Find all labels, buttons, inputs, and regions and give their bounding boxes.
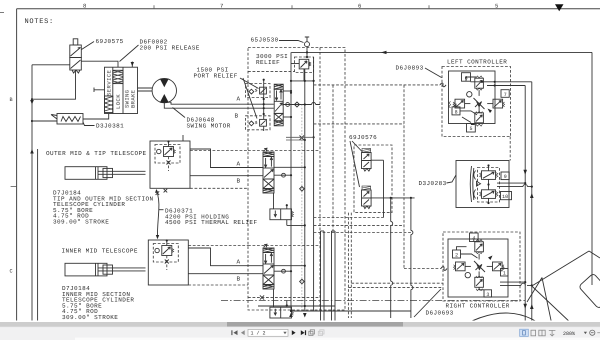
tele2 section dashed top tail <box>188 245 248 247</box>
tele2 spool top cap hatch <box>263 244 274 252</box>
swing spool X section <box>274 113 283 120</box>
bank section divider tele1/tele2 <box>248 245 320 247</box>
bus T vertical <box>304 69 306 311</box>
inter-stage arrow down <box>156 235 159 239</box>
RC lever ball <box>465 272 470 277</box>
pilot dash drop x404 <box>403 85 405 269</box>
toolbar top hairline <box>0 326 600 328</box>
node cross140-T <box>304 139 306 141</box>
brake shaft to motor <box>138 88 153 91</box>
grid tick 7-6 <box>291 5 293 9</box>
left controller inner box <box>449 71 496 124</box>
return riser pair a bridge <box>321 230 325 232</box>
node stub a <box>290 90 292 92</box>
valve D3J0381 spring <box>61 117 81 122</box>
horizontal scrollbar track <box>0 322 600 327</box>
left controller outer dashed box <box>442 67 511 137</box>
console line flow arrow <box>381 51 387 54</box>
grid tick 6-5 <box>428 5 430 9</box>
wire valve drain down <box>32 70 76 99</box>
bank bottom run a <box>258 305 335 307</box>
RC top reducer valve <box>475 240 484 260</box>
pilot dash lower run a <box>351 282 443 284</box>
bus left-ctrl B down <box>524 86 526 331</box>
node relief riser b <box>263 98 265 100</box>
top-left edge tick <box>0 12 4 14</box>
view mode selected <box>520 329 529 336</box>
pressure valve D3J0381 body <box>57 114 83 125</box>
outer-mid cylinder gland <box>103 168 113 177</box>
crossover V3 b <box>411 286 413 290</box>
crossover V2 b <box>391 281 393 285</box>
node out9 bus <box>524 182 526 184</box>
outer section dashed tail <box>190 187 248 189</box>
D3J0283 lever arcs <box>470 166 474 202</box>
node cross225 <box>304 224 306 226</box>
svg-text:69J0575: 69J0575 <box>96 38 124 45</box>
swing output orifice circle <box>286 103 290 107</box>
inner-mid cylinder piston <box>96 263 99 276</box>
wire twist right-ctrl <box>441 267 447 271</box>
node D3J0283 top <box>487 164 489 166</box>
svg-text:309.00" STROKE: 309.00" STROKE <box>53 219 109 226</box>
btn rotate disabled <box>318 330 324 336</box>
pilot dash pair drop a <box>347 213 349 318</box>
node relief riser c <box>263 113 265 115</box>
svg-text:A: A <box>237 96 241 103</box>
swing spool bottom cap hatch <box>274 121 283 126</box>
leader D3J0283 <box>447 175 457 183</box>
view mode scroll <box>549 330 556 336</box>
tele1 spool X section <box>263 179 274 189</box>
swing motor D6J0648 circle <box>152 78 176 102</box>
svg-text:2: 2 <box>455 253 458 259</box>
btn prev page <box>241 330 245 335</box>
wire valve out to brake <box>81 61 118 67</box>
wire 69J0576-1 out <box>371 159 383 161</box>
node relief riser a <box>263 79 265 81</box>
svg-text:4500 PSI THERMAL RELIEF: 4500 PSI THERMAL RELIEF <box>165 219 257 226</box>
svg-text:8: 8 <box>455 109 458 115</box>
shuttle B diamond <box>249 121 254 126</box>
pilot dash right-ctrl feed <box>404 268 441 270</box>
leader 69J0575 <box>82 42 95 50</box>
RC lever shade <box>488 256 493 261</box>
zoom dropdown <box>584 332 587 334</box>
node tele2 A-T <box>304 265 306 267</box>
port box 2 <box>453 250 461 259</box>
bank cross line y225 <box>287 224 305 226</box>
pilot dash feed upper <box>314 84 440 86</box>
inner section dashed tail <box>188 284 248 286</box>
RC output lower <box>500 284 532 286</box>
outer-mid holding pilot dash <box>168 157 170 172</box>
LC internal wire 5 <box>462 117 475 125</box>
node W1-D3J0381 <box>31 120 33 122</box>
right controller outer dashed box <box>443 232 520 301</box>
leader D3J0381 <box>83 122 95 126</box>
page field dropdown <box>283 332 286 334</box>
valve bank dashed edge 333 <box>332 85 334 233</box>
node swing output P <box>290 92 292 94</box>
D3J0283 valve 9 <box>480 171 498 180</box>
LC top reducer valve <box>475 76 484 96</box>
svg-text:D6J0893: D6J0893 <box>396 65 424 72</box>
view mode facing <box>539 330 545 336</box>
pilot dash ladder y225 <box>314 224 404 226</box>
crossover RC out <box>521 283 525 285</box>
port relief A dashed box <box>246 84 271 98</box>
outer-mid orifice X <box>167 161 171 165</box>
tele2 output orifice <box>282 269 286 273</box>
node tele1 A-T <box>304 166 306 168</box>
bus arrow down mid <box>523 170 527 175</box>
bus arrow up mid <box>530 193 534 198</box>
RC bottom reducer valve <box>475 271 484 290</box>
relief drain line <box>303 69 305 81</box>
solenoid valve 69J0575 body <box>70 45 82 70</box>
outer-mid cylinder piston <box>96 167 99 180</box>
node outer-mid block top <box>167 140 169 142</box>
LC lever shade <box>488 109 493 114</box>
bank top collector line <box>291 80 314 82</box>
tele1 pilot drain <box>286 205 288 225</box>
node collector-T <box>304 80 306 82</box>
node D3J0283 bottom <box>487 202 489 204</box>
svg-text:200 PSI RELEASE: 200 PSI RELEASE <box>140 45 200 52</box>
tele2 pilot riser <box>273 289 275 307</box>
node tele2 out P <box>290 270 292 272</box>
outer-mid cylinder barrel <box>65 167 107 180</box>
D3J0283 valve 10 <box>480 190 498 199</box>
node out10 bus <box>531 186 533 188</box>
node LC out b <box>494 84 496 86</box>
RC left reducer valve <box>454 262 471 271</box>
svg-text:9: 9 <box>504 174 507 180</box>
bus arrow up low <box>530 304 534 309</box>
station dash-dot line <box>221 300 525 302</box>
brake hatch lower (service col bottom) <box>105 96 113 113</box>
svg-text:D6J0693: D6J0693 <box>426 309 454 316</box>
crossover V2 a <box>391 222 393 226</box>
valve 69J0575 spring <box>72 70 80 73</box>
node RC out b <box>531 284 533 286</box>
toolbar bottom white strip <box>75 338 600 340</box>
wire swing A <box>168 102 274 104</box>
wire left vertical W1 <box>31 65 33 322</box>
svg-text:SWING MOTOR: SWING MOTOR <box>187 122 231 129</box>
restrictor diamond tele1 <box>300 187 305 192</box>
RC internal wire 4 <box>461 239 478 259</box>
port box 4 <box>470 233 479 242</box>
LC bottom reducer valve <box>475 107 484 126</box>
valve D3J0381 lever <box>51 115 57 120</box>
swing spool side stub a <box>283 90 291 92</box>
port box 7 <box>501 90 509 98</box>
wire reliefs riser <box>263 80 265 131</box>
port box 1 <box>501 269 509 277</box>
node relief riser B-line <box>263 107 265 109</box>
relief valve 3000psi dashed box <box>295 57 314 73</box>
svg-text:280%: 280% <box>563 331 575 337</box>
LC output upper <box>471 81 532 83</box>
brake pilot wire into block <box>131 62 133 68</box>
brake block outline <box>105 67 138 113</box>
node tele1 out P <box>290 174 292 176</box>
inner-mid cylinder gland <box>103 265 113 274</box>
tank mark x <box>300 136 304 140</box>
svg-text:6: 6 <box>358 2 361 9</box>
svg-text:B: B <box>10 97 13 103</box>
sheet left border <box>16 9 18 322</box>
bus arrow down low <box>523 304 527 309</box>
zoom out button <box>590 330 595 335</box>
port box 9 <box>501 172 509 180</box>
leader port relief upper <box>240 78 259 89</box>
bank bottom arrow up <box>289 313 293 318</box>
relief valve 3000psi body <box>299 59 310 69</box>
leader 65J0530 <box>279 41 304 43</box>
inner-mid orifice X <box>165 260 169 264</box>
port relief B body <box>255 119 266 126</box>
leader 69J0576 b <box>350 141 360 187</box>
tele1 spool body <box>263 157 274 180</box>
inner-mid block riser <box>166 240 168 246</box>
console diagonal lower <box>532 286 573 325</box>
brake block divider lock <box>122 67 124 113</box>
tele1 pilot valve <box>270 209 294 220</box>
svg-text:OUTER MID & TIP TELESCOPE: OUTER MID & TIP TELESCOPE <box>46 150 147 157</box>
console arc <box>452 313 552 334</box>
node LC out c <box>481 81 483 83</box>
outer-mid cylinder rod <box>98 171 146 174</box>
dashed link LC to D3J0283 <box>509 137 511 161</box>
btn next page <box>292 330 296 335</box>
outer-mid holding valve body <box>164 147 176 157</box>
crossover V3 a <box>411 231 413 235</box>
pilot riser V3 <box>410 198 412 318</box>
bank section divider swing/tele1 <box>248 150 320 152</box>
zoom slider <box>597 332 600 334</box>
valve bank inner dashed edge <box>319 48 321 311</box>
sheet top border <box>17 8 600 10</box>
node tele1 pilot <box>286 204 288 206</box>
wire D3J0381 branch <box>32 120 57 122</box>
svg-text:B: B <box>237 177 241 184</box>
node v2 out V2 <box>390 197 392 199</box>
bank bottom run b <box>292 310 411 312</box>
tele1 work stub A <box>274 166 305 168</box>
RC output upper <box>500 281 525 283</box>
wire 69J0576-2 out <box>371 197 415 199</box>
LC output lower <box>487 85 525 87</box>
svg-text:B: B <box>235 112 239 119</box>
LC internal wire 8 <box>456 104 477 115</box>
solenoid valve 69J0576-1 <box>362 149 372 172</box>
RC joystick pivot <box>474 261 485 272</box>
svg-text:D3J0381: D3J0381 <box>96 123 124 130</box>
pilot dash ladder y232 <box>314 232 411 234</box>
svg-text:1: 1 <box>503 271 506 277</box>
outer-mid block riser <box>169 135 184 147</box>
swing spool side stub b <box>283 116 291 118</box>
svg-text:69J0576: 69J0576 <box>349 134 377 141</box>
pilot riser V2 <box>390 198 392 318</box>
node breather-relief <box>306 56 308 58</box>
node cross137-T2 <box>313 136 315 138</box>
svg-text:3: 3 <box>486 292 489 298</box>
port box 3 <box>484 290 492 298</box>
svg-text:A: A <box>237 161 241 168</box>
wire supply to valve <box>32 64 70 66</box>
tele2 pilot valve <box>270 307 294 318</box>
solenoid valve 69J0575 pilot square <box>73 39 78 45</box>
69J0576 dashed box <box>354 145 392 213</box>
outer-mid B line <box>190 175 263 177</box>
inner-mid holding valve body <box>162 246 174 256</box>
port box 10 <box>501 192 512 200</box>
outer-mid holding block box <box>150 141 190 188</box>
svg-text:5: 5 <box>470 126 473 132</box>
tele1 output orifice <box>282 173 286 177</box>
svg-text:A: A <box>237 259 241 266</box>
LC left reducer valve <box>449 99 471 108</box>
relief feed line <box>291 63 299 65</box>
return riser pair b <box>332 231 336 322</box>
console rounded pod <box>579 273 600 309</box>
svg-text:1 / 2: 1 / 2 <box>251 331 266 337</box>
svg-text:5: 5 <box>495 2 498 9</box>
solenoid valve 69J0576-2 <box>362 186 372 209</box>
port box 5 <box>467 124 476 133</box>
inner-mid cylinder barrel <box>65 263 107 276</box>
return riser pair a <box>321 231 325 322</box>
svg-text:7: 7 <box>220 2 223 9</box>
pilot dash pair drop b <box>350 213 352 318</box>
status toolbar background <box>0 327 600 340</box>
flow arrow up on W1 <box>30 149 34 154</box>
tele1 pilot riser <box>273 193 275 209</box>
btn first page <box>231 330 237 335</box>
console box top line <box>291 51 592 53</box>
return riser pair b bridge <box>332 230 336 232</box>
wire swing B <box>164 103 273 108</box>
node RC out a <box>524 281 526 283</box>
tele1 spool top cap hatch <box>263 148 274 156</box>
port box 8 <box>452 107 460 116</box>
svg-text:B: B <box>237 276 241 283</box>
node collector-T2 <box>313 80 315 82</box>
leader port relief lower <box>243 78 257 119</box>
svg-text:D3J0283: D3J0283 <box>419 180 447 187</box>
tele2 output line <box>274 270 291 272</box>
shuttle A diamond <box>249 89 254 94</box>
crossover swing output T2 <box>312 103 316 105</box>
console diagonal main <box>532 251 589 286</box>
crossover out10 <box>523 184 527 186</box>
bus T2 vertical <box>313 57 315 311</box>
horizontal scrollbar thumb <box>227 322 403 327</box>
bus P vertical <box>290 52 292 311</box>
D3J0283 inner dashed box <box>478 168 500 203</box>
bank cross line y137 <box>286 137 314 140</box>
port relief B dashed box <box>246 116 271 130</box>
pilot dash lower run b <box>348 287 443 289</box>
wire left vertical W2 <box>37 149 39 322</box>
tele1 output line <box>274 174 291 176</box>
inner-mid holding valve dashed box <box>153 244 178 263</box>
console tilt rect <box>527 251 600 325</box>
svg-text:BRAKE: BRAKE <box>131 90 137 108</box>
flow arrow down on W1 <box>30 100 34 105</box>
tele2 spool X section <box>263 275 274 285</box>
swing spool top cap hatch <box>274 84 283 89</box>
port relief A body <box>255 87 266 94</box>
swing spool body <box>274 89 283 113</box>
LC lever ball <box>467 92 472 97</box>
node D3J0283 mid <box>487 183 489 185</box>
svg-text:RIGHT CONTROLLER: RIGHT CONTROLLER <box>446 302 510 309</box>
node W1-brake return <box>31 98 33 100</box>
node tele2 pilot <box>286 304 288 306</box>
drain collector dotted <box>301 105 303 312</box>
page number field <box>248 329 288 336</box>
LC joystick pivot <box>474 98 485 109</box>
node LC out a <box>494 81 496 83</box>
swing section dashed top <box>248 71 295 73</box>
tele2 work stub A <box>274 265 305 267</box>
D3J0283 box <box>456 161 509 208</box>
svg-text:LOCK: LOCK <box>116 94 122 109</box>
grid tick 8-7 <box>153 5 155 9</box>
inter-stage X mark a <box>156 191 160 195</box>
leader D6F0002 <box>120 45 139 62</box>
RC internal wire 3 <box>479 287 484 290</box>
outer-mid holding valve dashed box <box>155 145 180 164</box>
bus left-ctrl A down <box>531 82 533 330</box>
btn last page <box>301 330 306 335</box>
node collector-P <box>290 80 292 82</box>
LC internal wire 6 <box>466 77 476 81</box>
D3J0283 out 10 <box>497 186 532 188</box>
console box right edge <box>591 52 593 285</box>
node bottom run2 <box>304 305 306 307</box>
leader D6J0693 right <box>414 289 441 317</box>
view mode single <box>531 330 536 336</box>
btn rotate <box>309 330 315 336</box>
LC right reducer valve <box>487 99 504 108</box>
bank drain mark <box>260 295 264 299</box>
leader 69J0576 a <box>352 141 363 152</box>
D3J0283 lever triangle <box>477 181 481 186</box>
RC internal wire 2 <box>457 247 467 250</box>
node relief riser A-line <box>263 103 265 105</box>
swing motor top triangle <box>160 79 169 88</box>
tele2 spool body <box>263 253 274 276</box>
swing spool output line <box>283 104 320 106</box>
tele2 spool bottom cap hatch <box>263 285 274 290</box>
pilot dash feed lower <box>314 123 404 125</box>
svg-text:10: 10 <box>502 194 508 200</box>
breather 65J0530 <box>305 37 310 57</box>
svg-text:PORT RELIEF: PORT RELIEF <box>194 72 238 79</box>
brake shaft left <box>94 88 105 93</box>
bank bottom arrow down <box>303 313 307 318</box>
brake block drain <box>83 114 109 120</box>
svg-text:C: C <box>10 269 13 275</box>
inter-stage arrow up <box>155 189 158 193</box>
page bottom mask <box>0 321 600 323</box>
